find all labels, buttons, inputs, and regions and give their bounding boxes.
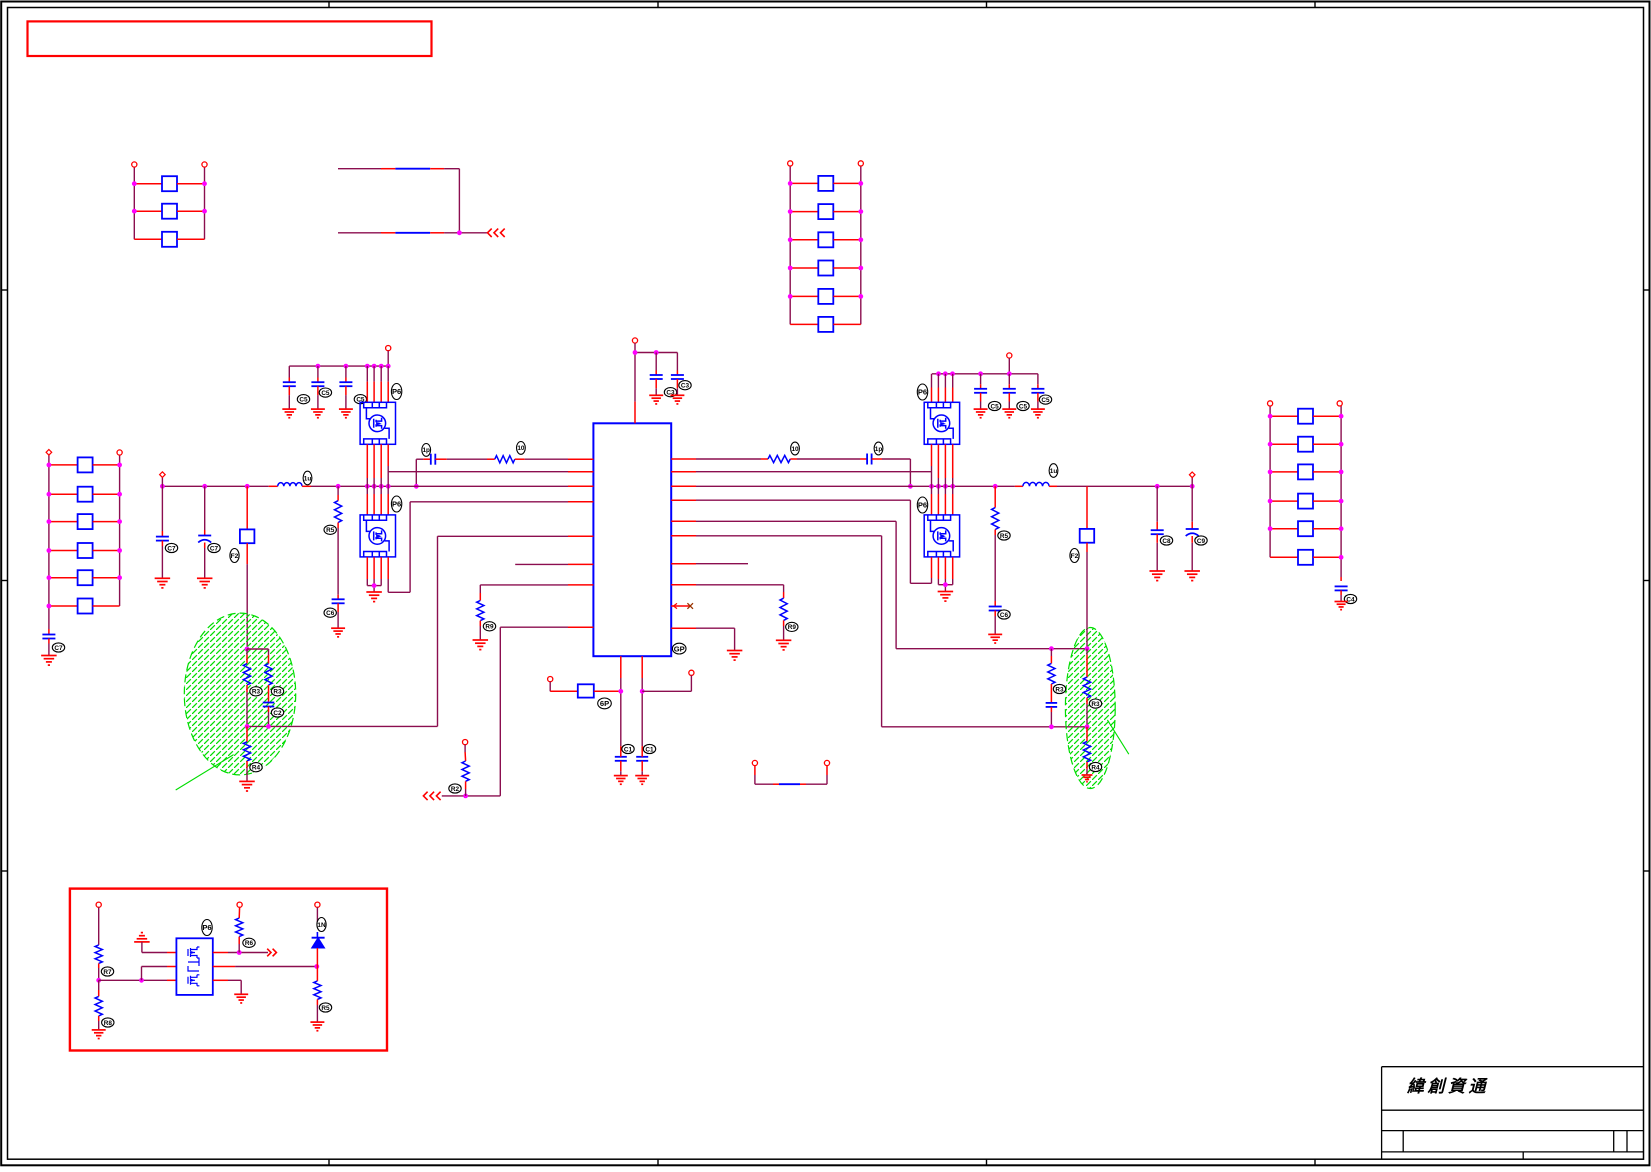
resistor RN1-1	[134, 183, 162, 185]
capacitor C11	[676, 353, 678, 371]
border tick marks	[328, 2, 330, 8]
capacitor C52	[1037, 374, 1039, 385]
resistor R11	[477, 601, 484, 621]
label C22	[998, 610, 1010, 619]
main net left end connector	[161, 478, 163, 487]
label C24	[1195, 536, 1207, 545]
label C10	[664, 388, 676, 397]
MOSFET Q3 block	[924, 402, 959, 444]
resistor pack RN4 rails	[1269, 406, 1271, 557]
jumper FB1	[395, 168, 430, 170]
svg-text:F2: F2	[231, 553, 239, 560]
svg-text:10: 10	[517, 445, 525, 452]
U1 top decoupling rail	[635, 352, 677, 354]
jumper FB3	[779, 783, 800, 785]
label R23	[324, 525, 336, 534]
svg-text:C1: C1	[624, 746, 633, 753]
svg-text:R3: R3	[1055, 686, 1064, 693]
ground below Q2 sources	[366, 591, 382, 593]
capacitor C12 series	[430, 454, 432, 465]
leader line right	[1107, 720, 1128, 754]
resistor RN4-6	[1270, 556, 1298, 558]
capacitor C10	[655, 353, 657, 371]
title block frame	[1382, 1067, 1644, 1160]
resistor RN4-2	[1270, 443, 1298, 445]
svg-text:GP: GP	[674, 644, 685, 653]
ground below C51	[1002, 408, 1016, 410]
capacitor C70	[615, 756, 627, 758]
label C31	[208, 543, 220, 552]
connector pin above right rail	[1007, 353, 1012, 358]
resistor RN2-2	[790, 211, 818, 213]
connector pins above RN1	[132, 162, 137, 167]
label C32	[271, 708, 283, 717]
label C20	[874, 442, 883, 455]
ground below C70	[614, 775, 628, 777]
svg-text:P6: P6	[392, 500, 401, 509]
resistor RN4-1	[1270, 415, 1298, 417]
svg-text:R4: R4	[252, 765, 261, 772]
resistor pack RN3 rails	[48, 455, 50, 629]
main wire right junction dots	[929, 484, 934, 489]
svg-text:C6: C6	[1000, 612, 1009, 619]
ground below C52	[1031, 408, 1045, 410]
junction node	[457, 230, 462, 235]
jumper FB2	[395, 232, 430, 234]
resistor RN2-5	[790, 295, 818, 297]
U1 no-connect pin	[671, 605, 690, 607]
ground below R61	[92, 1029, 106, 1031]
svg-text:R5: R5	[326, 527, 335, 534]
ground below C24	[1184, 570, 1200, 572]
main wire left of U1	[162, 485, 268, 487]
label R20	[791, 442, 800, 455]
resistor RN3-1	[49, 464, 78, 466]
resistor R21	[780, 598, 787, 620]
ground below C2	[1335, 601, 1348, 603]
left gate column return	[387, 557, 389, 579]
resistor RN2-1	[790, 182, 818, 184]
main wire right of U1	[696, 485, 1015, 487]
fuse F2 on right branch	[1086, 486, 1088, 529]
capacitor C2 below RN4	[1340, 577, 1342, 581]
resistor RN3-3	[49, 521, 78, 523]
svg-text:C9: C9	[1197, 538, 1206, 545]
wire row5 right	[696, 520, 896, 522]
svg-text:C7: C7	[210, 545, 219, 552]
ground below C11	[670, 394, 684, 396]
ground below Q4 sources	[938, 591, 954, 593]
resistor R12 pullup	[463, 740, 468, 745]
label C70	[622, 744, 634, 753]
polarized capacitor C24	[1191, 486, 1193, 522]
wire net loop right segment	[458, 169, 460, 233]
connector pins above RN2	[788, 161, 793, 166]
wire row2 left	[388, 471, 568, 473]
svg-text:C4: C4	[1346, 596, 1355, 603]
label C52	[1039, 395, 1051, 404]
label Q1	[391, 384, 401, 400]
svg-text:R9: R9	[485, 624, 494, 631]
resistor RN4-5	[1270, 528, 1298, 530]
label C71	[643, 744, 655, 753]
label C40	[297, 395, 309, 404]
svg-text:10: 10	[791, 446, 799, 453]
svg-text:F2: F2	[1071, 553, 1079, 560]
label R63	[319, 1003, 331, 1012]
svg-text:1u: 1u	[304, 475, 312, 482]
ground below C10	[649, 394, 663, 396]
dual MOSFET Q5 block	[176, 938, 212, 995]
label C33	[324, 608, 336, 617]
off-page connector arrows right	[267, 949, 271, 957]
resistor R23 from main net left	[337, 486, 339, 495]
ground below C71	[635, 775, 649, 777]
connector pins above RN4	[1268, 401, 1273, 406]
resistor RN3-5	[49, 577, 78, 579]
resistor RN1-3	[134, 238, 162, 240]
label L1	[303, 471, 312, 485]
resistor RN2-4	[790, 267, 818, 269]
U1 bottom pin 2	[641, 656, 643, 678]
junction dots right snubber top	[1049, 646, 1054, 651]
capacitor C22	[994, 601, 996, 606]
label R40	[1053, 684, 1065, 693]
label C23	[1160, 536, 1172, 545]
svg-text:R3: R3	[273, 689, 282, 696]
wire row1 right vertical	[909, 459, 911, 486]
svg-text:C5: C5	[991, 403, 1000, 410]
svg-text:1p: 1p	[875, 446, 883, 453]
svg-text:1u: 1u	[1050, 468, 1058, 475]
capacitor C1 below RN3	[48, 629, 50, 635]
connector pin P11	[315, 902, 320, 907]
junction dots RN1	[132, 181, 137, 186]
ground below row10	[727, 650, 743, 652]
label C11	[679, 381, 691, 390]
MOSFET Q1 block	[360, 402, 395, 444]
wire row4 left	[410, 501, 568, 503]
svg-text:R9: R9	[788, 624, 797, 631]
resistor RN4-3	[1270, 471, 1298, 473]
label C41	[319, 388, 331, 397]
label C1	[52, 643, 64, 652]
wire row4 right	[696, 499, 910, 501]
resistor RN2-3	[790, 239, 818, 241]
wire row1 right (RC to gate)	[696, 458, 761, 460]
label D1 value	[317, 918, 326, 932]
ground below C23	[1149, 570, 1165, 572]
inductor L1	[278, 483, 302, 487]
capacitor C20 series	[866, 454, 868, 465]
ground below R63	[310, 1021, 324, 1023]
U1 top pin wire	[632, 338, 637, 343]
resistor R50	[550, 690, 578, 692]
capacitor C23	[1156, 486, 1158, 522]
connector pin P10	[96, 902, 101, 907]
label Q5	[202, 920, 212, 936]
label F1	[230, 549, 239, 563]
capacitor C33	[337, 595, 339, 600]
svg-text:P6: P6	[918, 388, 927, 397]
svg-text:P6: P6	[918, 501, 927, 510]
ground below C41	[311, 408, 325, 410]
label Q4	[917, 497, 927, 513]
label C42	[354, 395, 366, 404]
svg-text:R5: R5	[321, 1005, 330, 1012]
junction dots RN3	[47, 463, 52, 468]
resistor RN3-6	[49, 605, 78, 607]
ground below C22	[988, 633, 1002, 635]
svg-text:1p: 1p	[422, 447, 430, 454]
svg-text:C1: C1	[645, 746, 654, 753]
capacitor C71	[636, 756, 648, 758]
svg-text:C7: C7	[54, 645, 63, 652]
label 6P	[598, 698, 612, 709]
svg-text:6P: 6P	[600, 699, 609, 708]
svg-text:P6: P6	[392, 387, 401, 396]
ground below C50	[974, 408, 988, 410]
wire row6 left stub	[515, 563, 568, 565]
ground below C42	[339, 408, 353, 410]
resistor R22 from main net	[994, 486, 996, 500]
resistor R20 series	[768, 455, 790, 462]
svg-text:R6: R6	[245, 940, 254, 947]
label R30	[250, 687, 262, 696]
right MOSFET columns lower	[931, 557, 933, 578]
junction dots RN2	[788, 181, 793, 186]
label Q2	[391, 496, 401, 512]
ground below R32	[239, 780, 255, 782]
ground below C30	[155, 577, 171, 579]
left MOSFET columns lower	[366, 557, 368, 579]
capacitor C60	[1050, 690, 1052, 702]
Q5 row C to ground	[213, 979, 228, 981]
capacitor C51	[1008, 374, 1010, 385]
wire row5 left	[438, 535, 569, 537]
left VCC rail	[289, 365, 388, 367]
right VCC rail	[932, 373, 1038, 375]
left rail junction dots	[316, 364, 321, 369]
label R62	[243, 938, 255, 947]
off-page connector arrows bottom-left	[423, 792, 427, 800]
wire row7 left	[480, 584, 568, 586]
label R22	[998, 531, 1010, 540]
wire row2 right	[696, 471, 932, 473]
main wire left junction dots	[160, 484, 165, 489]
resistor RN3-2	[49, 493, 78, 495]
resistor pack RN2 rails	[789, 166, 791, 324]
svg-text:R3: R3	[252, 689, 261, 696]
svg-text:C7: C7	[167, 545, 176, 552]
polarized capacitor C31	[204, 486, 206, 530]
label R31	[271, 687, 283, 696]
right MOSFET columns upper	[931, 374, 933, 388]
svg-text:R5: R5	[1000, 533, 1009, 540]
wire row8 left	[500, 626, 568, 628]
label L2	[1049, 464, 1058, 478]
label R60	[101, 967, 113, 976]
svg-text:C5: C5	[321, 390, 330, 397]
resistor R61	[98, 980, 100, 990]
svg-text:1N: 1N	[317, 922, 326, 929]
svg-text:C3: C3	[681, 383, 690, 390]
ground below Q5	[234, 993, 248, 995]
inductor L2	[1023, 482, 1049, 486]
ground below R11	[473, 639, 489, 641]
ground below C33	[331, 627, 345, 629]
IC U1 body	[593, 423, 671, 656]
resistor R60	[95, 945, 102, 964]
label C12	[422, 444, 431, 457]
wire net loop lower segment	[338, 232, 381, 234]
svg-text:C6: C6	[326, 610, 335, 617]
resistor R62 pullup	[237, 902, 242, 907]
left MOSFET columns middle	[366, 444, 368, 478]
right MOSFET columns middle	[931, 444, 933, 466]
svg-text:R4: R4	[1091, 764, 1100, 771]
U1 right pin stubs	[671, 458, 696, 460]
label C51	[1017, 401, 1029, 410]
leader line left	[176, 755, 234, 790]
resistor pack RN1 rails	[133, 167, 135, 239]
capacitor C50	[980, 374, 982, 385]
wire row5 right horizontal	[896, 648, 1087, 650]
capacitor C32	[268, 691, 270, 702]
label Q3	[917, 384, 927, 400]
svg-text:R2: R2	[451, 786, 460, 793]
red highlight rectangle top-left	[28, 21, 432, 56]
resistor RN3-4	[49, 550, 78, 552]
wire row1 left (RC to gate)	[416, 458, 423, 460]
junction dots below U1	[618, 689, 623, 694]
ground below C1	[41, 655, 57, 657]
label GP near U1	[672, 643, 686, 654]
U1 left pin stubs	[568, 458, 593, 460]
label R32	[250, 763, 262, 772]
capacitor C30	[161, 486, 163, 531]
gate branch wire	[141, 967, 143, 981]
wire row6 right horizontal	[882, 726, 1087, 728]
svg-text:C5: C5	[299, 397, 308, 404]
left MOSFET columns upper	[366, 366, 368, 382]
MOSFET Q2 block	[360, 515, 395, 557]
Q5 drain output wire	[213, 952, 228, 954]
label R61	[102, 1018, 114, 1027]
connector pin left below U1	[548, 677, 553, 682]
fuse F1 on snubber branch	[246, 486, 248, 529]
off-page connector arrows top	[488, 229, 492, 237]
red highlight box bottom-left	[70, 889, 387, 1051]
resistor R41	[1086, 649, 1088, 655]
resistor R10 series	[495, 456, 515, 463]
U1 bottom pin 1	[620, 656, 622, 678]
ground below R42	[1082, 774, 1093, 776]
wire row8 right	[696, 584, 784, 586]
resistor R40	[1050, 649, 1052, 656]
svg-text:R8: R8	[104, 1020, 113, 1027]
wire row10 right to ground	[696, 627, 735, 629]
open jumper wire	[752, 760, 757, 765]
wire row1 left vertical	[415, 459, 417, 486]
label F2	[1070, 549, 1079, 563]
capacitor C42	[345, 366, 347, 377]
resistor R42 to ground	[1086, 727, 1088, 742]
label R42	[1089, 762, 1101, 771]
resistor R32 to ground	[246, 726, 248, 741]
label R21	[786, 622, 798, 631]
svg-text:C5: C5	[1019, 403, 1028, 410]
label R12	[449, 784, 461, 793]
resistor R63	[316, 967, 318, 981]
ground below R21	[776, 639, 792, 641]
inverted ground source	[141, 932, 143, 934]
zener diode D1	[316, 932, 318, 938]
label R11	[483, 622, 495, 631]
label C30	[165, 543, 177, 552]
highlight ellipse left	[184, 613, 295, 775]
junction dots right snubber bottom	[1049, 724, 1054, 729]
ground below C40	[282, 408, 296, 410]
snubber junction bottom left	[245, 724, 250, 729]
connector pin right below U1	[689, 670, 694, 675]
resistor RN4-4	[1270, 500, 1298, 502]
capacitor C40	[288, 366, 290, 377]
label R10	[517, 442, 526, 455]
highlight ellipse right	[1065, 628, 1115, 789]
wire row6 right	[696, 535, 882, 537]
label C2	[1344, 594, 1356, 603]
MOSFET Q4 block	[924, 515, 959, 557]
resistor R31	[268, 649, 270, 655]
svg-text:R3: R3	[1091, 701, 1100, 708]
resistor RN2-6	[790, 323, 818, 325]
connector pin right of main net	[1191, 478, 1193, 487]
ground below C31	[197, 577, 213, 579]
connector pins above RN3	[46, 450, 52, 456]
svg-text:C2: C2	[273, 710, 282, 717]
junction dots RN4	[1268, 414, 1273, 419]
svg-text:C8: C8	[1162, 538, 1171, 545]
wire net loop upper segment	[338, 168, 381, 170]
Q5 row B long wire	[213, 966, 235, 968]
label C50	[988, 401, 1000, 410]
divider tap wire	[99, 979, 167, 981]
svg-text:P6: P6	[202, 923, 211, 932]
resistor R30	[246, 649, 248, 655]
wire row5 left horizontal to snubber	[247, 725, 438, 727]
resistor RN1-2	[134, 210, 162, 212]
snubber junction top left	[245, 647, 250, 652]
svg-text:R7: R7	[103, 969, 112, 976]
svg-text:緯創資通: 緯創資通	[1406, 1077, 1489, 1096]
wire row7 right stub	[696, 563, 748, 565]
connector pin above left rail	[386, 346, 391, 351]
right rail junction dots	[936, 371, 941, 376]
svg-text:C5: C5	[1041, 397, 1050, 404]
capacitor C41	[317, 366, 319, 377]
label R41	[1089, 699, 1101, 708]
